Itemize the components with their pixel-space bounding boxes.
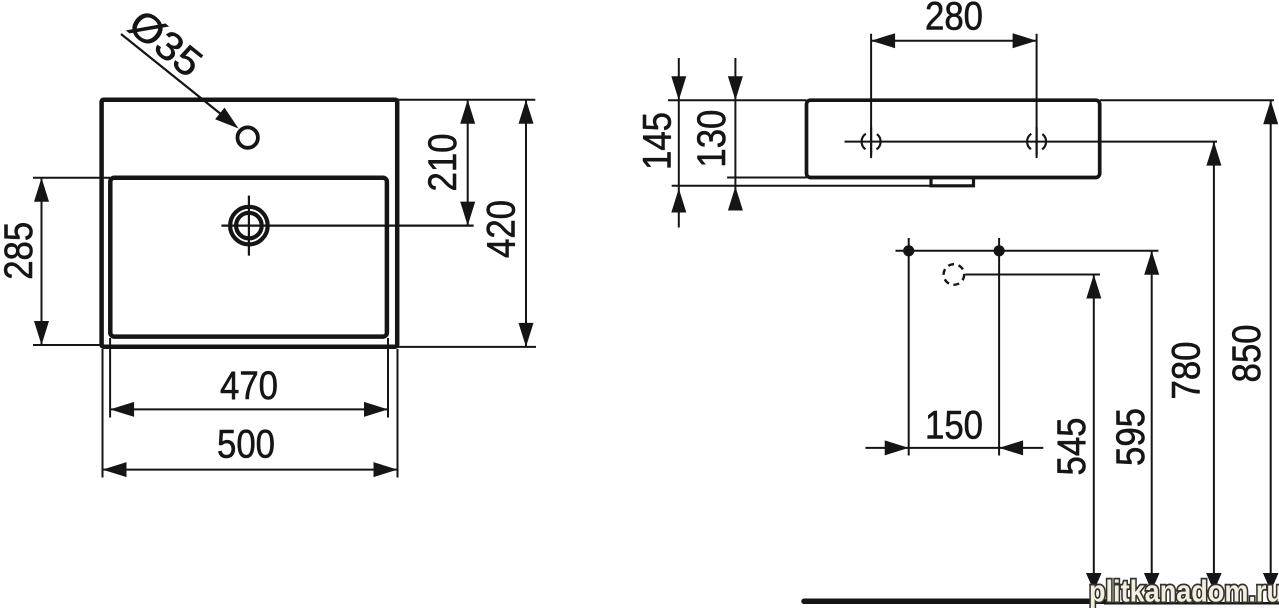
extension line bottom for 285 — [33, 344, 101, 346]
fixing dot left vertical extension — [908, 238, 910, 456]
dimension 470 arrow right — [364, 402, 388, 417]
dimension 595 arrow up — [1144, 251, 1159, 275]
dimension 420 arrow up — [519, 100, 534, 124]
dimension 280 arrow right — [1013, 33, 1037, 48]
svg-text:285: 285 — [0, 222, 41, 280]
floor line thin under watermark — [1104, 602, 1279, 605]
dimension 145 arrow up — [671, 189, 686, 213]
extension line left for 500 — [102, 349, 104, 478]
dimension 145 arrow down — [671, 76, 686, 100]
extension line right for 280 — [1036, 34, 1038, 158]
floor line thick — [804, 599, 1104, 605]
drain inner ring — [236, 213, 262, 239]
dimension 545 line — [1093, 275, 1095, 592]
dimension 285 arrow down — [34, 321, 49, 345]
dimension 470 arrow left — [110, 402, 134, 417]
reference line for 145 (tab bottom) — [672, 185, 931, 187]
fixing dots reference line — [896, 250, 1159, 252]
dimension 850 arrow down — [1263, 573, 1279, 591]
svg-text:500: 500 — [217, 423, 275, 467]
faucet hole — [238, 127, 258, 147]
svg-text:595: 595 — [1109, 408, 1153, 466]
extension line left for 470 — [109, 338, 111, 418]
left fixing hole dashed circle — [862, 132, 881, 151]
svg-text:420: 420 — [480, 200, 524, 258]
extension line left for 280 — [870, 34, 872, 158]
dimension 780 arrow down — [1206, 573, 1222, 591]
svg-text:145: 145 — [636, 112, 680, 170]
dimension 595 line — [1151, 251, 1153, 591]
svg-text:545: 545 — [1050, 418, 1094, 476]
dimension 500 arrow right — [374, 462, 398, 477]
dimension 780 arrow up — [1206, 142, 1221, 166]
dimension 210 arrow down — [460, 202, 475, 226]
svg-text:850: 850 — [1225, 325, 1269, 383]
svg-text:150: 150 — [925, 404, 983, 448]
drain centerline horizontal to 210 dim — [221, 225, 473, 227]
right fixing hole dashed circle — [1027, 132, 1046, 151]
dimension 500 arrow left — [103, 462, 127, 477]
dimension 130 arrow down — [728, 76, 743, 100]
drain tab under side view — [931, 179, 974, 186]
svg-text:130: 130 — [690, 110, 734, 168]
dimension 470 line — [110, 408, 388, 410]
reference line for 130 (rect bottom) — [727, 177, 806, 179]
top reference line left segment — [668, 99, 807, 101]
dimension 150 arrow pointing left — [999, 440, 1023, 455]
siphon dashed circle — [944, 264, 965, 285]
svg-text:470: 470 — [220, 364, 278, 408]
side view body rectangle — [807, 100, 1100, 177]
fixing dot left — [903, 245, 914, 256]
extension line top-right for 210 and 420 — [397, 99, 535, 101]
fixing dot right vertical extension — [998, 238, 1000, 456]
dimension 150 arrow pointing right — [885, 440, 909, 455]
top reference line right segment to 850 dim — [1100, 99, 1274, 101]
dimension 285 line — [41, 178, 43, 345]
dimension 850 line — [1270, 100, 1272, 591]
dimension 210 line — [467, 100, 469, 226]
dimension 595 arrow down — [1144, 573, 1160, 591]
dimension 145 line — [678, 58, 680, 228]
drain crosshair vertical — [248, 196, 250, 256]
dimension 280 line — [871, 40, 1037, 42]
dimension 420 line — [525, 100, 527, 347]
svg-text:plitkanadom.ru: plitkanadom.ru — [1089, 574, 1279, 608]
extension line right for 470 — [387, 338, 389, 418]
dimension 780 line — [1213, 142, 1215, 591]
basin inner bowl rectangle — [110, 178, 387, 337]
dimension 420 arrow down — [519, 323, 534, 347]
svg-text:780: 780 — [1165, 342, 1209, 400]
dimension 130 line — [734, 58, 736, 203]
leader arrowhead — [215, 108, 238, 129]
right fixing hole tick — [1035, 127, 1037, 155]
svg-text:210: 210 — [421, 134, 465, 192]
basin outer rectangle (plan view) — [102, 100, 398, 347]
extension line bottom-right for 420 — [397, 346, 536, 348]
dimension 500 line — [103, 469, 398, 471]
dimension 280 arrow left — [871, 33, 895, 48]
dimension 545 arrow up — [1086, 275, 1101, 299]
dimension 545 arrow down — [1086, 573, 1102, 591]
extension line right for 500 — [397, 349, 399, 478]
dimension 150 line — [865, 447, 1043, 449]
left fixing hole tick — [870, 127, 872, 155]
extension line top for 285 — [33, 177, 110, 179]
fixing dot right — [994, 245, 1005, 256]
dimension 130 arrow up — [728, 187, 743, 211]
siphon reference line to 545 dim — [966, 274, 1101, 276]
leader line for diameter 35 — [121, 34, 232, 123]
dimension 285 arrow up — [34, 178, 49, 202]
hole centerline through side view — [845, 141, 1218, 143]
drain outer ring — [230, 207, 268, 245]
dimension 210 arrow up — [460, 100, 475, 124]
dimension 850 arrow up — [1263, 100, 1278, 124]
svg-text:280: 280 — [925, 0, 983, 39]
